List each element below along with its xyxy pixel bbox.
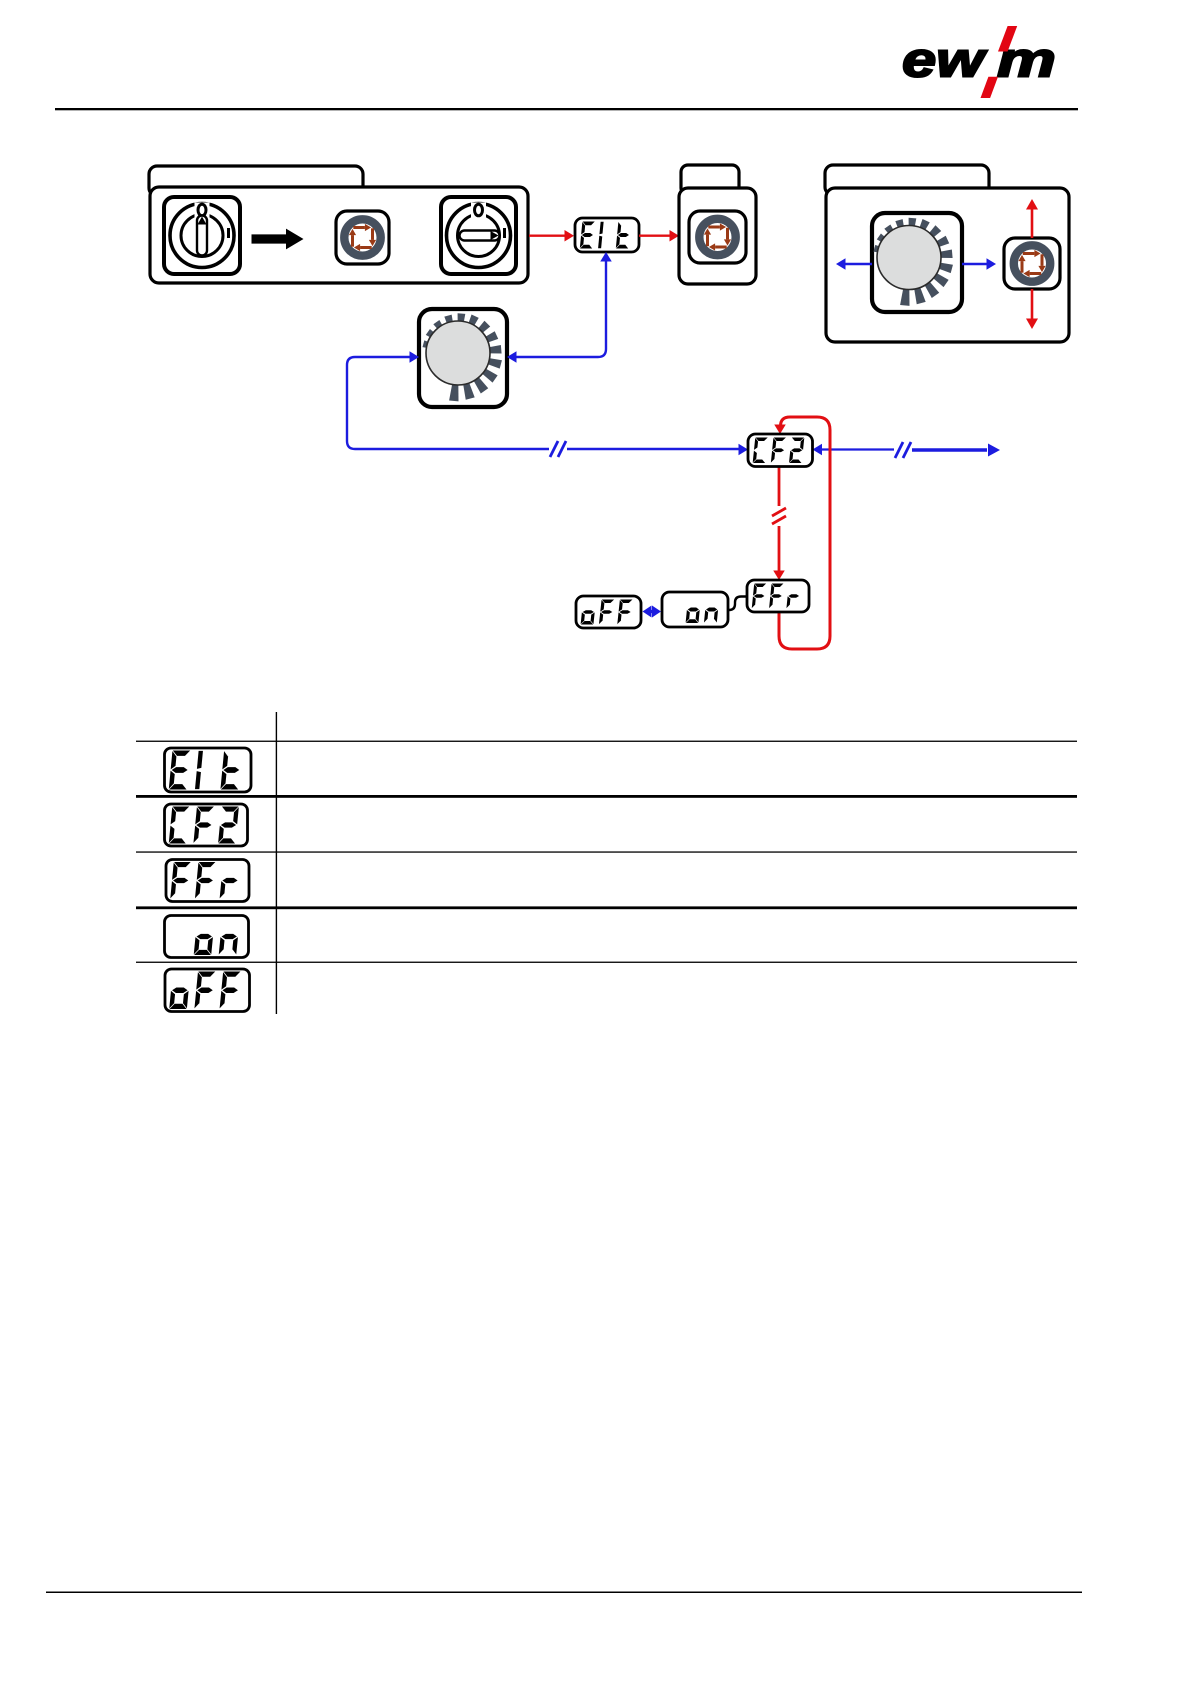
arrow red button up — [1026, 199, 1038, 238]
display CF2 (diagram) — [748, 434, 813, 467]
wire blue CF2 right — [813, 442, 1001, 458]
table column divider — [276, 712, 277, 1014]
knob E1 click wheel (panel P3) — [872, 213, 962, 312]
knob E2 click wheel — [419, 309, 507, 407]
arrow blue wheel right — [962, 258, 996, 270]
table row line 4 — [136, 906, 1077, 909]
display on (table) — [165, 916, 249, 958]
wire red S2 to Eit — [529, 230, 574, 242]
arrow blue oFF-on both ways — [643, 606, 662, 618]
header rule — [55, 108, 1078, 110]
table row line 5 — [136, 962, 1077, 963]
display FFr (diagram) — [747, 580, 809, 612]
panel P2 body — [679, 188, 756, 284]
panel P3 body — [826, 188, 1069, 342]
knob S1 main switch position 0 — [164, 197, 240, 274]
panel P3 tab — [825, 165, 989, 195]
ewm logo — [902, 26, 1056, 98]
table row line 2 — [136, 795, 1077, 798]
wire blue wheel to CF2 — [347, 351, 748, 457]
panel P1 tab — [149, 166, 363, 196]
display Eit (table) — [165, 748, 252, 792]
connector FFr-on — [728, 597, 747, 611]
wire blue Eit-wheel — [507, 252, 612, 363]
wire red CF2 to FFr — [772, 466, 786, 580]
arrow red button down — [1026, 289, 1038, 329]
panel P2 tab — [681, 165, 739, 195]
button B1 welding-parameter cycle — [336, 211, 389, 264]
button B2 welding-parameter cycle — [689, 211, 746, 263]
panel P1 body — [150, 187, 528, 283]
display oFF (diagram) — [576, 596, 641, 628]
knob S2 main switch position I — [441, 197, 516, 274]
arrow blue wheel left — [836, 258, 872, 270]
table row line 1 — [136, 741, 1077, 742]
display oFF (table) — [165, 969, 250, 1012]
display Eit (diagram) — [575, 218, 639, 252]
display CF2 (table) — [165, 804, 248, 846]
display on (diagram) — [662, 592, 728, 627]
display FFr (table) — [166, 860, 249, 902]
arrow black switch-on — [252, 229, 304, 250]
red loop FFr to CF2 — [774, 417, 830, 649]
table row line 3 — [136, 851, 1077, 852]
footer rule — [46, 1592, 1082, 1594]
button B3 welding-parameter cycle — [1004, 238, 1060, 289]
wire red Eit to panel P2 — [639, 230, 679, 242]
svg-text:ew: ew — [902, 34, 988, 88]
